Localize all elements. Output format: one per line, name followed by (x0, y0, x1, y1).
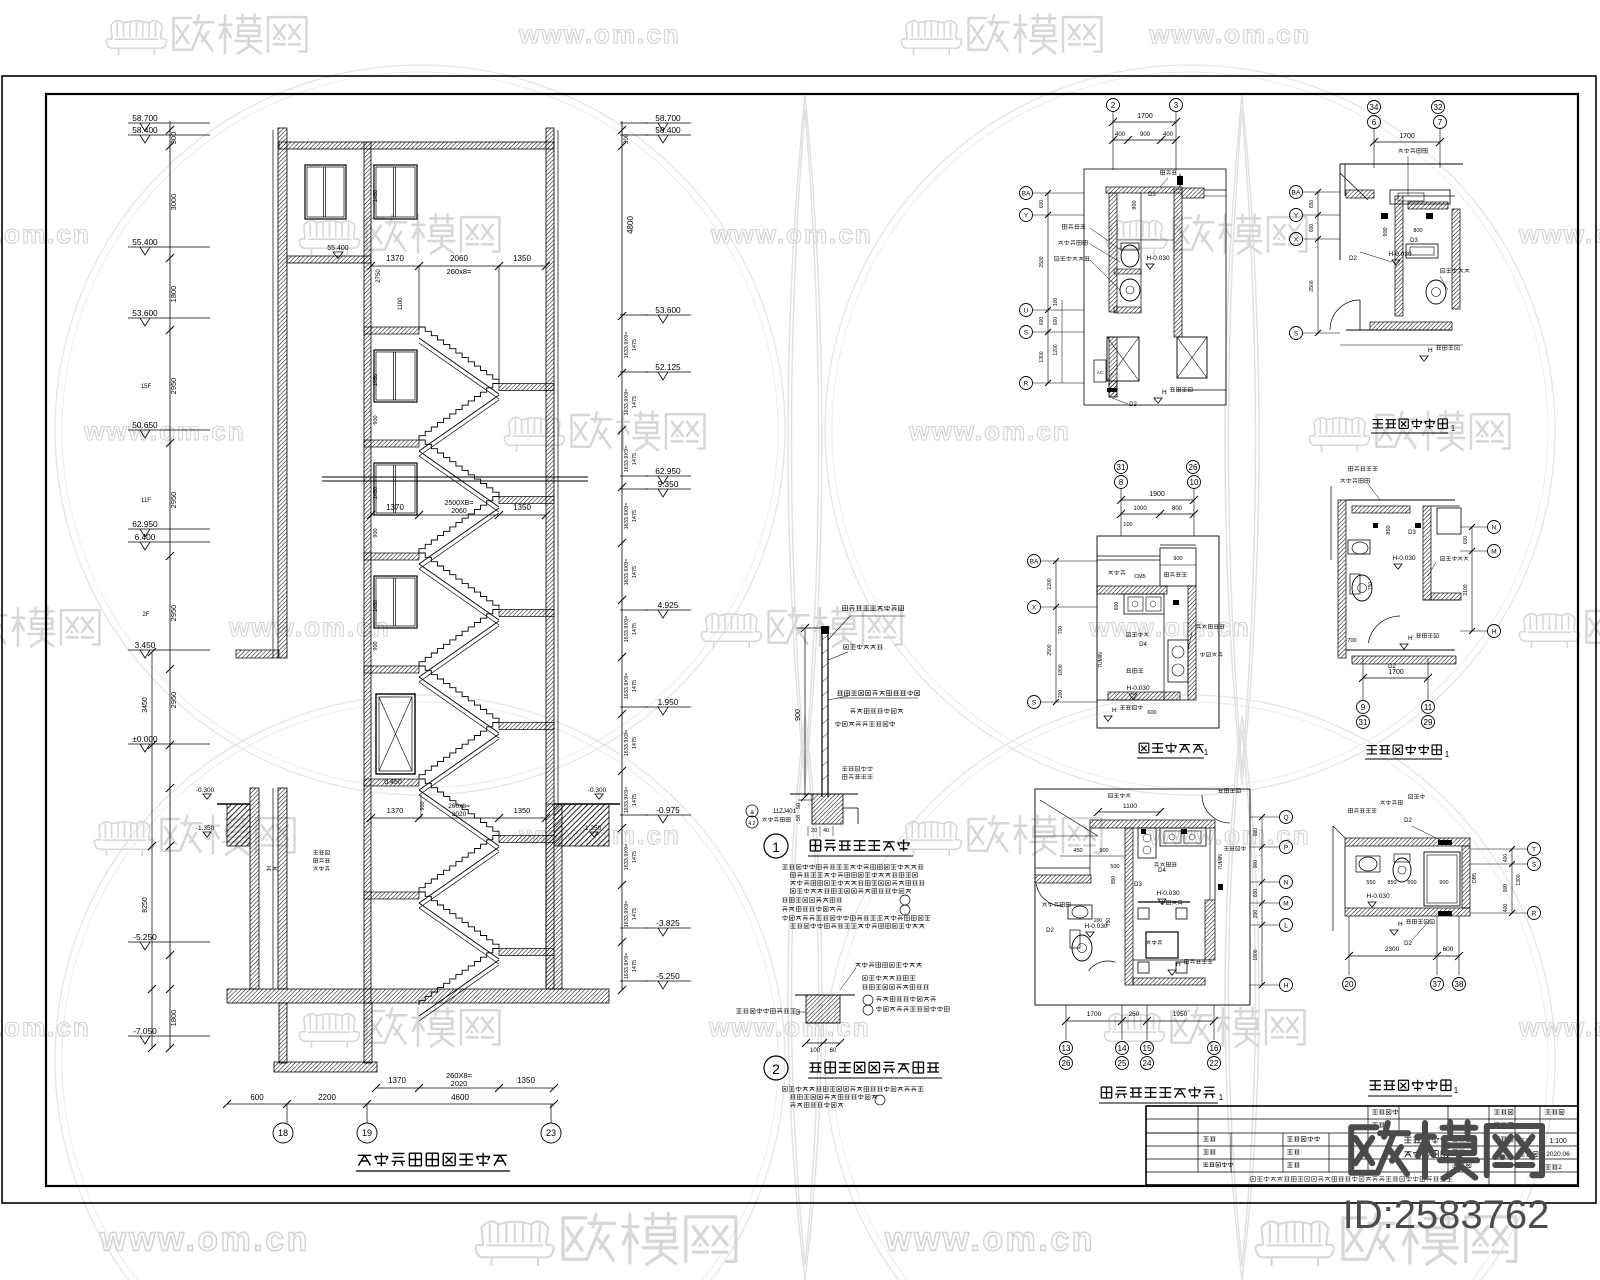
svg-text:15F: 15F (141, 384, 152, 390)
svg-text:S: S (1024, 329, 1029, 336)
svg-text:www.om.cn: www.om.cn (710, 219, 873, 249)
svg-text:500: 500 (1407, 880, 1416, 886)
svg-text:D3: D3 (1148, 192, 1156, 198)
plan5 dims top (1098, 811, 1160, 813)
svg-text:400: 400 (1503, 854, 1509, 863)
svg-text:1475: 1475 (632, 851, 638, 863)
detail1 notes (782, 864, 923, 869)
svg-text:DB5: DB5 (1472, 873, 1478, 883)
plan4 fixtures (1348, 540, 1370, 554)
svg-text:S: S (1532, 861, 1537, 868)
svg-text:14: 14 (1118, 1044, 1127, 1053)
svg-text:1450: 1450 (373, 190, 379, 202)
svg-text:ID:2583762: ID:2583762 (1343, 1193, 1550, 1237)
svg-text:100: 100 (1123, 522, 1132, 528)
svg-text:2F: 2F (142, 612, 149, 618)
svg-text:1700: 1700 (1399, 133, 1415, 140)
plan2 title (1373, 419, 1448, 429)
svg-text:-1.350: -1.350 (196, 825, 215, 832)
grid bubble 19 (357, 1123, 377, 1143)
svg-text:1800: 1800 (1058, 664, 1064, 675)
plan2 bathroom top-right (1368, 101, 1381, 114)
svg-text:9: 9 (1361, 703, 1366, 712)
svg-text:850: 850 (1386, 525, 1392, 534)
svg-text:900: 900 (1503, 884, 1509, 893)
svg-text:6.400: 6.400 (135, 532, 156, 542)
svg-text:BA: BA (1030, 558, 1039, 565)
svg-text:1370: 1370 (387, 806, 404, 815)
detail2 number circle (764, 1056, 788, 1080)
canopy 3.450 (236, 650, 279, 658)
svg-text:H-0.030: H-0.030 (1156, 890, 1180, 897)
svg-text:1: 1 (1204, 748, 1209, 757)
svg-text:800: 800 (1172, 506, 1183, 512)
svg-text:800: 800 (1253, 828, 1259, 837)
detail1 900 dim (804, 628, 806, 797)
svg-text:600: 600 (1147, 710, 1156, 716)
section break line (322, 476, 588, 478)
svg-text:H: H (1176, 961, 1181, 968)
svg-text:58.400: 58.400 (132, 125, 158, 135)
svg-text:900: 900 (1099, 848, 1108, 854)
svg-text:38: 38 (1455, 980, 1464, 989)
svg-text:P: P (1284, 844, 1288, 851)
mid dim line repeat (371, 514, 546, 516)
svg-text:2950: 2950 (169, 692, 178, 709)
svg-text:3450: 3450 (142, 697, 149, 713)
svg-text:1350: 1350 (513, 254, 531, 263)
svg-text:900: 900 (1253, 860, 1259, 869)
svg-text:1900: 1900 (1149, 491, 1165, 498)
svg-text:1633.9X9=: 1633.9X9= (624, 953, 630, 980)
landing level 0 (364, 327, 419, 334)
svg-text:2020: 2020 (452, 811, 467, 818)
svg-text:31: 31 (1359, 718, 1368, 727)
svg-text:2060: 2060 (450, 254, 468, 263)
svg-text:www.om.cn: www.om.cn (518, 19, 681, 49)
svg-text:D2: D2 (1349, 256, 1357, 262)
svg-text:1000: 1000 (1133, 506, 1147, 512)
svg-text:850: 850 (1111, 876, 1117, 885)
svg-text:600: 600 (250, 1093, 264, 1102)
svg-text:55.400: 55.400 (327, 245, 349, 252)
svg-text:1450: 1450 (373, 487, 379, 499)
left dimension chain (169, 121, 171, 1048)
svg-text:450: 450 (1073, 848, 1082, 854)
svg-text:-5.250: -5.250 (656, 971, 680, 981)
svg-text:53.600: 53.600 (132, 308, 158, 318)
svg-text:24: 24 (1143, 1059, 1152, 1068)
svg-text:23: 23 (546, 1128, 556, 1138)
stair windows (374, 350, 417, 402)
svg-text:6: 6 (1372, 118, 1377, 127)
big watermark logo text (1351, 1122, 1542, 1178)
svg-text:900: 900 (373, 415, 379, 424)
svg-text:N: N (1492, 524, 1497, 531)
svg-text:53.600: 53.600 (655, 305, 681, 315)
svg-text:200: 200 (1253, 910, 1259, 919)
plan3 title (1139, 743, 1203, 754)
svg-text:1: 1 (772, 839, 780, 855)
grid bubble 18 (273, 1123, 293, 1143)
svg-text:19: 19 (362, 1128, 372, 1138)
svg-text:50: 50 (796, 803, 802, 809)
svg-text:20: 20 (811, 828, 817, 834)
svg-text:900: 900 (1439, 880, 1448, 886)
svg-text:400: 400 (1163, 132, 1174, 138)
svg-text:200: 200 (1094, 918, 1103, 924)
svg-text:13: 13 (1062, 1044, 1071, 1053)
svg-text:-0.300: -0.300 (196, 787, 215, 794)
svg-text:H: H (1492, 628, 1497, 635)
svg-text:1:100: 1:100 (1549, 1138, 1567, 1145)
watermark circles (55, 65, 785, 795)
plan5 bath fixtures (1068, 905, 1092, 919)
svg-text:1633.9X9=: 1633.9X9= (624, 446, 630, 473)
svg-text:600: 600 (1114, 602, 1120, 611)
svg-text:AC: AC (1097, 370, 1104, 375)
svg-text:100: 100 (810, 1048, 821, 1054)
svg-text:2950: 2950 (169, 492, 178, 509)
svg-text:H-0.030: H-0.030 (1126, 685, 1150, 692)
svg-text:2200: 2200 (318, 1093, 336, 1102)
svg-text:600: 600 (1039, 317, 1045, 326)
svg-text:-1.350: -1.350 (583, 825, 602, 832)
svg-text:2: 2 (1558, 1164, 1562, 1171)
plan1 walls (1106, 187, 1182, 193)
svg-text:1700: 1700 (1087, 1011, 1102, 1018)
svg-text:700: 700 (1347, 638, 1356, 644)
svg-text:900: 900 (1132, 200, 1138, 209)
svg-text:600: 600 (1309, 224, 1315, 233)
svg-text:20: 20 (1345, 980, 1354, 989)
svg-text:1475: 1475 (632, 623, 638, 635)
svg-text:37: 37 (1433, 980, 1442, 989)
plan6 title (1370, 1080, 1451, 1091)
svg-text:900: 900 (373, 528, 379, 537)
svg-text:34: 34 (1370, 103, 1379, 112)
svg-text:7UMIN: 7UMIN (1218, 854, 1224, 870)
svg-text:16: 16 (1210, 1044, 1219, 1053)
plan6 labels (1349, 808, 1377, 812)
ground soil hatch right (554, 804, 609, 846)
upper dim line 1370/2060/1350 (371, 265, 546, 267)
svg-text:1350: 1350 (513, 503, 531, 512)
watermark logo tiles (106, 21, 166, 55)
svg-text:www.om.cn: www.om.cn (1088, 612, 1251, 642)
svg-text:8: 8 (1119, 478, 1124, 487)
svg-text:900: 900 (795, 709, 802, 721)
svg-text:www.om.cn: www.om.cn (1148, 19, 1311, 49)
svg-text:850: 850 (1387, 880, 1396, 886)
svg-text:58.700: 58.700 (132, 113, 158, 123)
svg-text:1100: 1100 (398, 297, 404, 311)
section bottom dims (376, 1087, 554, 1089)
svg-text:550: 550 (1366, 880, 1375, 886)
plan1 basin (1120, 279, 1140, 301)
svg-text:700: 700 (1058, 626, 1064, 635)
plan1 left bubbles (1020, 187, 1033, 200)
svg-text:1300: 1300 (1039, 351, 1045, 362)
svg-text:R: R (1532, 910, 1537, 917)
svg-text:2300: 2300 (1385, 946, 1400, 953)
section: top windows (305, 165, 346, 219)
svg-text:11: 11 (1424, 703, 1433, 712)
plan3 left bubbles (1028, 555, 1041, 568)
svg-text:7UMIN: 7UMIN (1098, 652, 1104, 668)
svg-text:600: 600 (1039, 200, 1045, 209)
svg-text:www.om.cn: www.om.cn (99, 1220, 310, 1258)
svg-text:2100: 2100 (1463, 584, 1469, 595)
svg-text:10: 10 (1190, 478, 1199, 487)
svg-text:1633.9X9=: 1633.9X9= (624, 787, 630, 814)
first floor dim line (371, 817, 546, 819)
svg-text:1475: 1475 (632, 339, 638, 351)
svg-text:55.400: 55.400 (132, 237, 158, 247)
svg-text:1633.9X9=: 1633.9X9= (624, 503, 630, 530)
svg-text:8250: 8250 (142, 897, 149, 913)
svg-text:1633.9X9=: 1633.9X9= (624, 730, 630, 757)
right wall below ground (546, 804, 562, 989)
svg-text:R: R (1024, 380, 1029, 387)
svg-text:300: 300 (169, 132, 178, 145)
svg-text:2950: 2950 (169, 605, 178, 622)
plan6 bathroom bottom-right (1332, 826, 1334, 931)
svg-text:H: H (1162, 389, 1167, 396)
svg-text:25: 25 (1118, 1059, 1127, 1068)
svg-text:1700: 1700 (1388, 669, 1404, 676)
svg-text:1475: 1475 (632, 908, 638, 920)
detail1 leaders (828, 616, 850, 640)
svg-text:1350: 1350 (514, 806, 531, 815)
svg-text:260x8=: 260x8= (448, 803, 470, 810)
svg-text:Q: Q (1283, 814, 1288, 821)
svg-text:H: H (1284, 982, 1289, 989)
svg-text:26: 26 (1189, 463, 1198, 472)
svg-text:2500XB=: 2500XB= (445, 500, 474, 507)
secondary left chain (151, 652, 153, 1048)
svg-text:4600: 4600 (451, 1093, 469, 1102)
plan5 title (1101, 1087, 1215, 1099)
svg-text:600: 600 (1443, 946, 1454, 953)
svg-text:2: 2 (1111, 101, 1116, 110)
svg-text:11ZJ401: 11ZJ401 (773, 809, 797, 815)
svg-text:±0.000: ±0.000 (132, 734, 158, 744)
svg-text:4.925: 4.925 (658, 600, 679, 610)
svg-text:1: 1 (1451, 424, 1456, 433)
svg-text:60: 60 (830, 1048, 837, 1054)
plan6 right bubbles (1528, 843, 1541, 856)
section: left wall (278, 128, 287, 658)
svg-text:1: 1 (1219, 1093, 1224, 1102)
svg-text:29: 29 (1424, 718, 1433, 727)
landing level 4 (364, 779, 419, 786)
plan2 fixtures (1406, 244, 1438, 258)
plan5 bottom dims (1066, 1020, 1214, 1022)
svg-text:18: 18 (278, 1128, 288, 1138)
section: mid wall (364, 142, 371, 1003)
svg-text:400: 400 (1503, 904, 1509, 913)
plan5 kitchen fixtures (1160, 828, 1206, 846)
plan3 black fittings (1173, 600, 1179, 605)
svg-text:1: 1 (1454, 1086, 1459, 1095)
svg-text:2500: 2500 (1047, 644, 1053, 655)
svg-text:62.950: 62.950 (132, 519, 158, 529)
svg-text:1300: 1300 (1516, 874, 1522, 885)
plan5 inner walls (1040, 800, 1098, 836)
title block bottom note (1251, 1176, 1453, 1181)
svg-text:D2: D2 (1046, 928, 1054, 934)
plan1 leaders (1063, 224, 1086, 229)
svg-text:D2: D2 (1404, 818, 1412, 824)
svg-text:40: 40 (823, 828, 829, 834)
svg-text:1633.9X9=: 1633.9X9= (624, 332, 630, 359)
detail1 title (810, 840, 909, 852)
svg-text:0.450: 0.450 (384, 779, 402, 786)
plan1 AC box (1094, 360, 1106, 382)
svg-text:1475: 1475 (632, 960, 638, 972)
svg-text:3.450: 3.450 (135, 640, 156, 650)
svg-text:1450: 1450 (373, 374, 379, 386)
svg-text:9.350: 9.350 (658, 479, 679, 489)
svg-text:15: 15 (1143, 1044, 1152, 1053)
svg-text:X: X (1032, 604, 1037, 611)
svg-text:58.400: 58.400 (655, 125, 681, 135)
svg-text:CM5: CM5 (1134, 574, 1146, 580)
svg-text:D3: D3 (1134, 882, 1142, 888)
plan2 left bubbles (1290, 186, 1303, 199)
plan2 black fittings (1381, 213, 1388, 219)
plan3 stove (1168, 640, 1188, 682)
svg-text:N: N (1284, 879, 1289, 886)
plan1 black fittings (1107, 388, 1117, 392)
plan4 leaders (1349, 466, 1378, 471)
svg-text:D4: D4 (1139, 642, 1147, 648)
detail2 notes (783, 1086, 924, 1091)
svg-text:2750: 2750 (376, 269, 382, 283)
svg-text:1475: 1475 (632, 510, 638, 522)
svg-text:H: H (1408, 635, 1413, 642)
section: 55.4 slab (287, 256, 371, 263)
svg-text:T: T (1532, 846, 1536, 853)
plan4 title (1367, 745, 1442, 755)
elevator pit walls (279, 1003, 287, 1063)
svg-text:1450: 1450 (373, 600, 379, 612)
svg-text:52.125: 52.125 (655, 362, 681, 372)
svg-text:1800: 1800 (1253, 949, 1259, 960)
svg-text:Y: Y (1294, 212, 1299, 219)
svg-text:1700: 1700 (1137, 113, 1153, 120)
svg-text:-7.050: -7.050 (133, 1026, 157, 1036)
svg-text:a: a (750, 809, 754, 816)
section: roof slab (279, 142, 554, 149)
svg-text:600: 600 (1253, 889, 1259, 898)
svg-text:D3: D3 (1410, 238, 1418, 244)
svg-text:4800: 4800 (626, 216, 635, 234)
svg-text:H: H (1428, 347, 1433, 354)
svg-text:32: 32 (1434, 103, 1443, 112)
detail1 railing post (821, 628, 823, 797)
svg-text:S: S (1294, 330, 1299, 337)
plan3 kitchen (1115, 461, 1128, 474)
svg-text:D2: D2 (1404, 941, 1412, 947)
plan5 table (1146, 932, 1178, 958)
svg-text:1475: 1475 (632, 794, 638, 806)
svg-text:500: 500 (1110, 864, 1119, 870)
svg-text:1475: 1475 (632, 680, 638, 692)
plan5 black fittings (1141, 829, 1146, 834)
svg-text:260x8=: 260x8= (447, 267, 472, 276)
detail1 ref circles (746, 805, 758, 817)
elevator door ground floor (376, 694, 415, 774)
svg-text:7: 7 (1438, 118, 1443, 127)
svg-text:www.om.cn: www.om.cn (708, 1012, 871, 1042)
section: right wall (546, 128, 554, 989)
svg-text:650: 650 (1309, 200, 1315, 209)
svg-text:58.700: 58.700 (655, 113, 681, 123)
svg-text:200: 200 (1058, 690, 1064, 699)
svg-text:3000: 3000 (169, 194, 178, 211)
svg-text:900: 900 (1383, 227, 1389, 236)
svg-text:1633.9X9=: 1633.9X9= (624, 901, 630, 928)
plan5 right bubbles (1280, 811, 1293, 824)
landing level 1 (364, 440, 419, 447)
detail2 step (806, 995, 840, 1023)
svg-text:1370: 1370 (386, 254, 404, 263)
plan1 toilet (1121, 245, 1139, 267)
svg-text:-5.250: -5.250 (133, 932, 157, 942)
svg-text:100: 100 (1053, 298, 1059, 307)
svg-text:62.950: 62.950 (655, 466, 681, 476)
svg-text:60: 60 (796, 1009, 802, 1015)
svg-text:1100: 1100 (1123, 803, 1137, 810)
svg-text:BA: BA (1292, 189, 1301, 196)
svg-text:H-0.030: H-0.030 (1146, 255, 1170, 262)
svg-text:1: 1 (1445, 750, 1450, 759)
plan1 shafts (1107, 337, 1139, 381)
svg-text:www.om.cn: www.om.cn (83, 416, 246, 446)
svg-text:1633.9X9=: 1633.9X9= (624, 673, 630, 700)
svg-text:2060: 2060 (451, 508, 467, 515)
svg-text:1633.9X9=: 1633.9X9= (624, 616, 630, 643)
svg-text:50.650: 50.650 (132, 420, 158, 430)
svg-text:1475: 1475 (632, 396, 638, 408)
svg-text:250: 250 (1129, 1011, 1140, 1018)
svg-text:www.om.cn: www.om.cn (1518, 1012, 1600, 1042)
svg-text:600: 600 (1053, 317, 1059, 326)
svg-text:2500: 2500 (1039, 256, 1045, 267)
svg-text:H-0.030: H-0.030 (1388, 251, 1412, 258)
svg-text:750: 750 (1368, 582, 1374, 591)
plan1 bathroom top-center (1107, 99, 1120, 112)
svg-text:L: L (1284, 922, 1288, 929)
svg-text:1370: 1370 (388, 1076, 406, 1085)
svg-text:-0.975: -0.975 (656, 805, 680, 815)
svg-text:M: M (1491, 548, 1496, 555)
svg-text:D4: D4 (1158, 868, 1166, 874)
svg-text:4.2: 4.2 (749, 821, 756, 827)
svg-text:S: S (1032, 699, 1037, 706)
svg-text:1800: 1800 (169, 286, 178, 303)
svg-text:1950: 1950 (1173, 1011, 1188, 1018)
svg-text:X: X (1294, 236, 1299, 243)
svg-text:2020: 2020 (451, 1079, 468, 1088)
watermark leaves (788, 95, 822, 785)
svg-text:H-0.030: H-0.030 (1084, 923, 1108, 930)
plan3 notes (1127, 632, 1149, 637)
svg-text:D2: D2 (1129, 402, 1137, 408)
svg-text:Y: Y (1024, 212, 1029, 219)
